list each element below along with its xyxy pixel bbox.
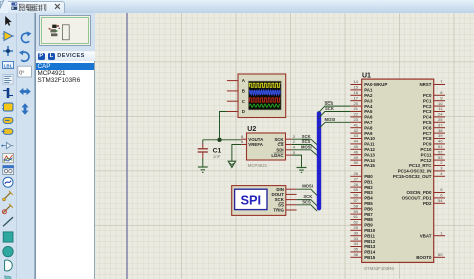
svg-text:PA3: PA3 <box>364 98 373 103</box>
svg-text:42: 42 <box>354 128 359 133</box>
U2 pin 5 LDAC <box>271 150 295 158</box>
U1 pin 62 PB9 <box>350 220 373 228</box>
U1 pin 5 OSCIN_PD0 <box>407 187 445 195</box>
U1 pin 46 PA13 <box>350 149 375 157</box>
svg-text:PA2: PA2 <box>364 93 373 98</box>
scope trace C red square wave <box>249 98 280 102</box>
svg-text:PC0: PC0 <box>423 93 432 98</box>
svg-text:39: 39 <box>438 133 443 138</box>
U2 pin 2 CS <box>277 139 295 147</box>
svg-text:SPI: SPI <box>240 192 261 207</box>
U1 pin 10 PC2 <box>423 101 445 109</box>
U2 pin 6 VREFA <box>241 139 264 147</box>
U1 pin 59 PB7 <box>350 209 373 217</box>
U1 pin 35 PB14 <box>350 247 375 255</box>
wire bus to U1 net SCS <box>319 101 350 112</box>
svg-text:36: 36 <box>354 252 359 257</box>
svg-text:PC6: PC6 <box>423 125 432 130</box>
svg-text:33: 33 <box>354 236 359 241</box>
svg-text:VBAT: VBAT <box>420 233 432 238</box>
U1 pin 9 PC1 <box>423 95 445 103</box>
svg-text:30: 30 <box>354 230 359 235</box>
U1 pin 52 PC11 <box>421 149 445 157</box>
U1 pin 33 PB12 <box>350 236 375 244</box>
ground under C1 <box>198 167 208 172</box>
svg-text:STM32F103R6: STM32F103R6 <box>364 266 394 271</box>
U1 pin 26 PB0 <box>350 171 373 179</box>
U1 pin 4 PC15-OSC32_OUT <box>393 171 445 179</box>
junction node <box>217 138 221 142</box>
svg-text:PA10: PA10 <box>364 136 375 141</box>
wire bus to U1 net SCK <box>319 106 350 117</box>
SPI debugger pin SCK <box>275 197 297 202</box>
U1 pin 61 PB8 <box>350 214 373 222</box>
svg-text:40: 40 <box>438 139 443 144</box>
U1 pin 43 PA10 <box>350 133 375 141</box>
svg-text:49: 49 <box>354 155 359 160</box>
svg-text:PA13: PA13 <box>364 152 375 157</box>
svg-text:PC9: PC9 <box>423 142 432 147</box>
svg-text:51: 51 <box>438 144 443 149</box>
U1 pin 34 PB13 <box>350 241 375 249</box>
U1 pin 57 PB5 <box>350 198 373 206</box>
svg-text:PA12: PA12 <box>364 147 375 152</box>
U1 pin 24 PC4 <box>423 112 445 120</box>
svg-text:PB1: PB1 <box>364 179 373 184</box>
svg-text:PA11: PA11 <box>364 142 375 147</box>
svg-text:MOSI: MOSI <box>302 184 313 189</box>
svg-text:61: 61 <box>354 214 359 219</box>
wire bus to U1 net MOSI <box>319 117 350 128</box>
SPI debugger pin TRIG <box>273 208 296 213</box>
svg-text:PC11: PC11 <box>421 152 432 157</box>
SPI debugger pin DIN <box>276 187 296 192</box>
svg-text:PB11: PB11 <box>364 233 375 238</box>
svg-text:MCP4921: MCP4921 <box>248 163 268 168</box>
U1 pin 56 PB4 <box>350 193 373 201</box>
wire node to U2 VOUTA <box>203 139 241 141</box>
wire SPI debugger to bus net SCK <box>297 194 317 206</box>
svg-text:43: 43 <box>354 133 359 138</box>
U1 pin 3 PC14-OSC32_IN <box>398 166 445 174</box>
svg-text:PC10: PC10 <box>420 147 432 152</box>
U1 pin 45 PA12 <box>350 144 375 152</box>
SPI debugger pin SS <box>278 202 297 207</box>
scope pin A <box>227 78 246 83</box>
U1 pin 15 PA1 <box>350 85 373 93</box>
svg-text:21: 21 <box>354 106 359 111</box>
svg-text:23: 23 <box>354 117 359 122</box>
svg-text:PC3: PC3 <box>423 109 432 114</box>
oscilloscope instrument <box>238 74 286 118</box>
svg-text:28: 28 <box>354 182 359 187</box>
SPI debugger instrument <box>232 186 286 216</box>
svg-text:PA14: PA14 <box>364 158 375 163</box>
scope pin D <box>227 109 245 114</box>
U1 pin 58 PB6 <box>350 203 373 211</box>
wire U2 to bus net SCS <box>292 139 318 150</box>
svg-text:D: D <box>242 109 245 114</box>
svg-text:PC1: PC1 <box>423 98 432 103</box>
U1 pin 25 PC5 <box>423 117 445 125</box>
svg-text:22: 22 <box>354 112 359 117</box>
svg-text:59: 59 <box>354 209 359 214</box>
svg-text:PC4: PC4 <box>423 115 432 120</box>
svg-text:52: 52 <box>438 149 443 154</box>
ground arrow under VREFA <box>228 161 235 167</box>
SPI debugger pin DOUT <box>271 192 296 197</box>
U1 pin 29 PB10 <box>350 225 375 233</box>
svg-text:PB3: PB3 <box>364 190 373 195</box>
U1 pin 22 PA6 <box>350 112 373 120</box>
U1 pin 37 PC6 <box>423 122 445 130</box>
svg-text:PB7: PB7 <box>364 212 373 217</box>
wire U2 VREFA to ground <box>232 145 241 162</box>
svg-text:38: 38 <box>438 128 443 133</box>
U1 pin 49 PA14 <box>350 155 375 163</box>
sheet border line <box>126 13 128 279</box>
svg-text:SCK: SCK <box>274 137 284 142</box>
svg-text:55: 55 <box>354 187 359 192</box>
svg-text:PC15-OSC32_OUT: PC15-OSC32_OUT <box>393 174 432 179</box>
U1 pin 27 PB1 <box>350 176 373 184</box>
svg-text:56: 56 <box>354 193 359 198</box>
svg-text:PA0-WKUP: PA0-WKUP <box>364 82 387 87</box>
svg-text:SDI: SDI <box>276 148 283 153</box>
svg-text:PA4: PA4 <box>364 104 373 109</box>
svg-text:U2: U2 <box>247 126 256 133</box>
svg-text:24: 24 <box>438 112 443 117</box>
svg-text:PA8: PA8 <box>364 125 373 130</box>
U1 pin 53 PC12 <box>420 155 445 163</box>
U2 pin 4 SDI <box>276 145 295 153</box>
wire scope D to node (down) <box>220 112 227 140</box>
U1 pin 51 PC10 <box>420 144 445 152</box>
U1 pin 20 PA4 <box>350 101 373 109</box>
svg-text:50: 50 <box>354 160 359 165</box>
svg-text:PB12: PB12 <box>364 239 376 244</box>
wire U2 to bus net SCK <box>292 134 318 145</box>
U1 pin 11 PC3 <box>423 106 445 114</box>
U1 pin 23 PA7 <box>350 117 373 125</box>
scope trace A yellow square wave <box>249 83 280 87</box>
U2 pin 3 SCK <box>274 134 295 142</box>
svg-text:35: 35 <box>354 247 359 252</box>
svg-text:26: 26 <box>354 171 359 176</box>
svg-text:PB14: PB14 <box>364 250 376 255</box>
U1 pin 42 PA9 <box>350 128 373 136</box>
svg-text:60: 60 <box>438 252 443 257</box>
U1 pin 44 PA11 <box>350 139 375 147</box>
svg-text:BOOT0: BOOT0 <box>416 255 432 260</box>
svg-text:54: 54 <box>438 198 443 203</box>
svg-text:PC13_RTC: PC13_RTC <box>409 163 432 168</box>
svg-text:PB2: PB2 <box>364 185 373 190</box>
U1 pin 7 NRST <box>419 79 445 87</box>
svg-text:PA9: PA9 <box>364 131 373 136</box>
scope pin B <box>227 89 245 94</box>
U1 pin 1 VBAT <box>420 230 445 238</box>
U1 pin 16 PA2 <box>350 90 373 98</box>
scope trace B blue sine wave <box>249 90 281 94</box>
U1 pin 54 PD2 <box>423 198 445 206</box>
U1 pin 8 PC0 <box>423 90 445 98</box>
svg-text:OSCOUT_PD1: OSCOUT_PD1 <box>402 196 432 201</box>
svg-text:PC8: PC8 <box>423 136 432 141</box>
ground under LDAC <box>297 168 307 173</box>
svg-text:OSCIN_PD0: OSCIN_PD0 <box>407 190 432 195</box>
U1 pin 41 PA8 <box>350 122 373 130</box>
svg-text:PB8: PB8 <box>364 217 373 222</box>
SPI bus (thick blue) <box>317 113 321 208</box>
svg-text:PB5: PB5 <box>364 201 373 206</box>
svg-text:PB13: PB13 <box>364 244 376 249</box>
svg-text:PA6: PA6 <box>364 115 373 120</box>
svg-text:VREFA: VREFA <box>248 142 263 147</box>
scope pin C <box>227 99 246 104</box>
svg-text:PC7: PC7 <box>423 131 432 136</box>
svg-text:CS: CS <box>277 142 283 147</box>
svg-text:LDAC: LDAC <box>271 153 284 158</box>
U1 pin 2 PC13_RTC <box>409 160 445 168</box>
svg-text:PA15: PA15 <box>364 163 375 168</box>
svg-text:PB4: PB4 <box>364 196 373 201</box>
scope trace D green sine wave <box>249 104 280 107</box>
svg-text:15: 15 <box>354 85 359 90</box>
svg-text:B: B <box>242 89 245 94</box>
U1 pin 30 PB11 <box>350 230 375 238</box>
U1 pin 55 PB3 <box>350 187 373 195</box>
U1 pin 21 PA5 <box>350 106 373 114</box>
svg-text:PC5: PC5 <box>423 120 432 125</box>
svg-text:PC12: PC12 <box>420 158 432 163</box>
wire SPI debugger to bus net MOSI <box>297 184 317 196</box>
svg-text:62: 62 <box>354 220 359 225</box>
svg-text:1nF: 1nF <box>213 154 221 159</box>
svg-text:PC14-OSC32_IN: PC14-OSC32_IN <box>398 169 432 174</box>
svg-text:TRIG: TRIG <box>273 208 284 213</box>
svg-text:46: 46 <box>354 149 359 154</box>
wire SPI debugger to bus net SCS <box>297 199 317 211</box>
U1 pin 40 PC9 <box>423 139 445 147</box>
svg-text:MOSI: MOSI <box>325 117 336 122</box>
wire C1 bottom to ground <box>202 158 204 167</box>
svg-text:PA1: PA1 <box>364 88 373 93</box>
svg-text:25: 25 <box>438 117 443 122</box>
svg-text:27: 27 <box>354 176 359 181</box>
svg-text:10: 10 <box>438 101 443 106</box>
svg-text:PA7: PA7 <box>364 120 373 125</box>
U1 pin 60 BOOT0 <box>416 252 445 260</box>
wire U2 LDAC to ground <box>292 155 302 167</box>
U1 pin 50 PA15 <box>350 160 375 168</box>
svg-text:44: 44 <box>354 139 359 144</box>
svg-text:PD2: PD2 <box>423 201 432 206</box>
svg-text:37: 37 <box>438 122 443 127</box>
svg-text:PB9: PB9 <box>364 223 373 228</box>
U1 pin 17 PA3 <box>350 95 373 103</box>
U1 pin 28 PB2 <box>350 182 373 190</box>
svg-text:53: 53 <box>438 155 443 160</box>
svg-text:57: 57 <box>354 198 359 203</box>
svg-text:PB15: PB15 <box>364 255 376 260</box>
U1 pin 36 PB15 <box>350 252 375 260</box>
U1 pin 39 PC8 <box>423 133 445 141</box>
svg-text:14: 14 <box>354 79 359 84</box>
wire U2 to bus net MOSI <box>292 145 318 156</box>
svg-text:29: 29 <box>354 225 359 230</box>
svg-text:45: 45 <box>354 144 359 149</box>
U1 pin 38 PC7 <box>423 128 445 136</box>
U2 pin 8 VOUTA <box>241 134 264 142</box>
IC U1 STM32F103R6 <box>362 73 434 272</box>
U1 pin 14 PA0-WKUP <box>350 79 387 87</box>
svg-text:PB0: PB0 <box>364 174 373 179</box>
svg-text:41: 41 <box>354 122 359 127</box>
svg-text:VOUTA: VOUTA <box>248 137 264 142</box>
svg-text:PA5: PA5 <box>364 109 373 114</box>
svg-text:58: 58 <box>354 203 359 208</box>
svg-text:20: 20 <box>354 101 359 106</box>
U1 pin 6 OSCOUT_PD1 <box>402 193 445 201</box>
svg-text:NRST: NRST <box>419 82 431 87</box>
svg-text:PC2: PC2 <box>423 104 432 109</box>
svg-text:LBL: LBL <box>4 63 13 68</box>
svg-text:0°: 0° <box>19 70 24 76</box>
svg-text:34: 34 <box>354 241 359 246</box>
svg-text:PB10: PB10 <box>364 228 376 233</box>
svg-text:MOSI: MOSI <box>301 145 312 150</box>
svg-text:SCK: SCK <box>302 134 311 139</box>
svg-text:SCK: SCK <box>325 106 334 111</box>
svg-text:PB6: PB6 <box>364 206 373 211</box>
svg-text:16: 16 <box>354 90 359 95</box>
capacitor C1 1nF <box>198 143 222 159</box>
wire C1 top to node <box>202 140 204 144</box>
DAC U2 MCP4921 <box>247 126 286 168</box>
svg-text:U1: U1 <box>362 73 371 80</box>
svg-text:17: 17 <box>354 95 359 100</box>
